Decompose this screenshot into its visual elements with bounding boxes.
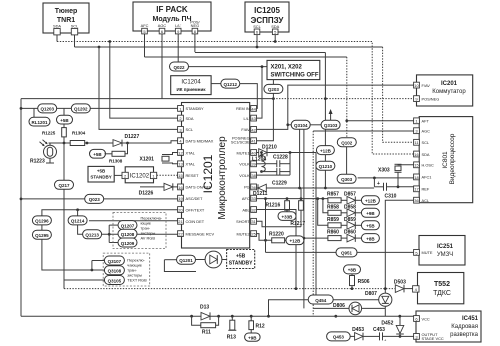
svg-text:SCL: SCL [422, 140, 430, 145]
resistor R1217 [290, 201, 305, 227]
IC1201 pin 25 MUTE2 [237, 231, 257, 237]
resistor R506 [350, 274, 370, 289]
svg-text:УМЗЧ: УМЗЧ [437, 252, 453, 258]
wire bottom supply rail [21, 315, 414, 317]
svg-text:R1304: R1304 [72, 131, 86, 136]
svg-text:Q1213: Q1213 [85, 233, 99, 238]
IC1201 pin 22 MESSAGE RCV [178, 231, 215, 237]
svg-text:H.OSC: H.OSC [422, 163, 435, 168]
svg-text:C1229: C1229 [272, 181, 287, 187]
svg-text:13: 13 [178, 162, 183, 167]
net +12В oval row [355, 199, 361, 201]
transistor Q217 oval [55, 143, 74, 289]
wire IC1202 to uC pin15 RESET [157, 174, 178, 176]
node Q1214 top junction [76, 208, 79, 211]
svg-text:C1228: C1228 [273, 155, 288, 161]
svg-text:SCL: SCL [71, 24, 79, 29]
svg-text:D1227: D1227 [125, 134, 140, 140]
svg-text:STANDBY: STANDBY [229, 261, 253, 267]
svg-text:+5В: +5В [93, 152, 102, 157]
svg-text:POS/NEG: POS/NEG [422, 96, 440, 101]
TEXT RGB switch dashed box [103, 253, 150, 286]
wire +12B drop vertical [324, 53, 326, 146]
node AFC1 junction [373, 177, 376, 180]
svg-text:19: 19 [178, 196, 183, 201]
transistor Q022 oval [170, 62, 189, 71]
vertical deflection IC451 box [416, 311, 481, 342]
wire vertical bus b [313, 307, 349, 309]
svg-text:+8В: +8В [366, 236, 375, 241]
crystal X1201 [140, 153, 178, 164]
net +5B oval left [57, 108, 73, 124]
svg-text:+12В: +12В [289, 239, 301, 244]
svg-text:TEXT RGB: TEXT RGB [127, 278, 147, 283]
svg-text:Q1296: Q1296 [35, 219, 49, 224]
wire ASC/DET row [21, 198, 178, 200]
wire Q1212 to uC pin44 REM IN [240, 84, 257, 109]
svg-text:R11: R11 [202, 330, 211, 336]
svg-text:40: 40 [251, 150, 256, 155]
tuner pin SCL [71, 29, 77, 48]
resistor R860 [303, 230, 380, 243]
diode D503 [394, 280, 413, 293]
IC201 pin 10 F/AV [414, 82, 431, 88]
diode D1210 [257, 144, 317, 156]
svg-text:Q203: Q203 [268, 87, 280, 92]
IC801 pin 1 AFT [414, 118, 430, 124]
diode D13 [200, 305, 210, 320]
wire Q3104 down link [299, 129, 301, 188]
svg-text:XTAL: XTAL [186, 162, 196, 167]
node R506 bottom junction [351, 287, 354, 290]
wire AFC from IF PACK to IC801 AFT [145, 56, 347, 58]
IC1202 pin 2 [122, 172, 128, 178]
wire F/AV line to IC201 pin10 [257, 85, 414, 129]
svg-text:20: 20 [178, 207, 183, 212]
svg-text:R857: R857 [327, 191, 339, 197]
svg-text:SWITCHING OFF: SWITCHING OFF [271, 73, 319, 79]
wire Q1295 to TEXT RGB [42, 239, 105, 270]
wire chassis left rail [20, 99, 22, 317]
svg-text:41: 41 [251, 139, 256, 144]
svg-text:12: 12 [178, 150, 183, 155]
svg-text:X303: X303 [378, 168, 390, 174]
wire AFT to IC801 pin1 [347, 120, 414, 122]
svg-text:18: 18 [414, 175, 419, 180]
resistor R12 [249, 316, 265, 333]
svg-text:Коммутатор: Коммутатор [432, 89, 466, 95]
svg-text:Q1203: Q1203 [40, 107, 54, 112]
svg-text:SDA: SDA [422, 152, 430, 157]
svg-text:SC1/SC3E: SC1/SC3E [231, 140, 250, 145]
svg-text:X1201: X1201 [140, 157, 155, 163]
photodiode R1223 [30, 140, 57, 165]
svg-text:Q1208: Q1208 [121, 232, 135, 237]
transistor Q1296 oval [32, 216, 51, 225]
wire Q951 to IC251 pin5 [357, 251, 414, 253]
wire chassis top rail [21, 98, 273, 100]
svg-text:R1225: R1225 [42, 131, 56, 136]
IC1201 pin 33 AFC [242, 195, 257, 201]
resistor R1225 [42, 124, 66, 143]
wire TEXT RGB feeder [92, 261, 105, 271]
svg-text:SHORT: SHORT [236, 219, 250, 224]
svg-text:L1204: L1204 [252, 157, 266, 163]
svg-text:R1308: R1308 [109, 159, 123, 164]
svg-text:Тюнер: Тюнер [55, 8, 78, 15]
IC1201 pin 43 L/L' [244, 115, 257, 121]
diode D857 [341, 199, 347, 201]
diode D806 in circle [333, 302, 385, 316]
svg-text:DATS ON/OFF: DATS ON/OFF [186, 185, 212, 190]
svg-text:+5В: +5В [366, 224, 375, 229]
svg-text:IC801: IC801 [442, 151, 449, 169]
IC1201 pin 41 POS/NEG SC1/SC3E [231, 136, 257, 145]
node ASC left rail junction [20, 198, 23, 201]
node D1227 cathode junction [126, 142, 129, 145]
svg-text:Q3104: Q3104 [294, 123, 308, 128]
svg-text:16: 16 [414, 152, 419, 157]
svg-text:SDA: SDA [53, 24, 61, 29]
wire DATS row [49, 141, 178, 143]
transistor Q1295 oval [32, 225, 51, 239]
svg-text:IC201: IC201 [441, 81, 458, 87]
T552 pin 4 [413, 286, 419, 292]
transistor Q951 oval [336, 248, 357, 257]
svg-text:IF PACK: IF PACK [156, 5, 188, 14]
IC1201 pin 21 COIN DET [178, 218, 205, 224]
svg-text:32: 32 [251, 207, 256, 212]
svg-text:SCL: SCL [253, 24, 261, 29]
wire chassis dashed rail [64, 288, 395, 290]
diode D807 in circle [365, 291, 392, 308]
svg-text:+5В: +5В [236, 254, 246, 260]
svg-text:SCL: SCL [186, 127, 194, 132]
wire SCL bus [75, 47, 414, 142]
svg-text:AFC1: AFC1 [422, 175, 432, 180]
wire AFC1 to IC801 pin18 [358, 177, 414, 179]
svg-text:REF: REF [422, 187, 430, 192]
svg-text:36: 36 [414, 198, 419, 203]
node ACL rail junction [384, 287, 387, 290]
IC1202 pin 1 [150, 172, 156, 178]
node R1304-D1227 junction [86, 142, 89, 145]
net +8В oval row [355, 237, 361, 239]
svg-text:15: 15 [178, 173, 183, 178]
IF PACK pin 5 AFC [142, 28, 148, 57]
svg-text:D1211: D1211 [253, 191, 268, 197]
svg-text:Q951: Q951 [341, 251, 353, 256]
svg-text:D859: D859 [344, 217, 356, 223]
transistor Q453 oval [327, 332, 351, 341]
svg-text:DATS MID/MAX: DATS MID/MAX [186, 139, 214, 144]
capacitor C1228 [262, 155, 291, 168]
svg-text:R1217: R1217 [290, 221, 305, 227]
relay RL1201 oval [29, 108, 50, 126]
wire AFC pin33 row [257, 198, 328, 200]
IC1201 pin 4 DATS MID/MAX [178, 138, 214, 144]
svg-text:IC1204: IC1204 [181, 80, 201, 86]
svg-text:D807: D807 [365, 291, 377, 297]
net +12B oval small [286, 236, 304, 245]
svg-text:+5В: +5В [60, 118, 69, 123]
svg-text:NEG: NEG [191, 23, 199, 28]
node D806 vcc junction [334, 315, 337, 318]
node SCL-IC1205 junction [256, 46, 259, 49]
video processor IC801 box [419, 117, 473, 203]
svg-text:15: 15 [414, 163, 419, 168]
node AV RGB junction [108, 233, 111, 236]
wire MESSAGE row [102, 233, 178, 235]
svg-text:+9В: +9В [366, 211, 375, 216]
IF PACK pin 6 AGC [159, 28, 165, 98]
wire Q203 to uC pin41 POS/NEG [257, 93, 274, 140]
svg-text:AGC: AGC [158, 23, 167, 28]
svg-text:X201, X202: X201, X202 [271, 65, 303, 71]
svg-text:R1223: R1223 [30, 159, 45, 165]
diode D1226 [139, 183, 178, 196]
IC1201 pin 36 PG [244, 184, 257, 190]
transistor Q1203 oval [38, 104, 57, 113]
node SDA-uC junction [108, 40, 111, 43]
IC451 pin 6 VCC [414, 316, 430, 322]
IC1201 pin 20 OFF/TEXT [178, 207, 205, 213]
svg-text:+12В: +12В [320, 148, 332, 153]
svg-text:D453: D453 [352, 327, 364, 333]
node +12B rail junction [324, 97, 327, 100]
wire Q3104 to Q3103 [310, 124, 321, 126]
wire L/L' to Q022 line [257, 67, 263, 119]
svg-text:ABL: ABL [242, 207, 250, 212]
svg-text:38: 38 [251, 173, 256, 178]
svg-text:Q1209: Q1209 [121, 241, 135, 246]
reset IC1202 box [114, 167, 153, 183]
IC1201 pin 42 F/AV [241, 127, 256, 133]
net +5B oval mid [90, 149, 106, 158]
resistor R1308 [105, 143, 128, 164]
wire AGC dashed drop [312, 131, 314, 316]
crystal X303 [378, 164, 414, 187]
wire STANDBY row [21, 107, 178, 109]
svg-text:25: 25 [251, 232, 256, 237]
wire Q1201 drop [164, 260, 196, 272]
svg-text:AFC: AFC [242, 196, 250, 201]
svg-text:D806: D806 [333, 303, 345, 309]
diode D452 vertical [381, 316, 403, 336]
svg-text:10: 10 [414, 83, 419, 88]
svg-text:ASC/DET: ASC/DET [186, 196, 203, 201]
node AFT junction [345, 119, 348, 122]
svg-text:SDA: SDA [271, 24, 279, 29]
svg-text:44: 44 [251, 106, 256, 111]
wire OFF/TEXT row [42, 210, 178, 216]
wire COIN DET row [89, 220, 178, 222]
IC801 pin 3 AGC [414, 128, 431, 134]
svg-text:Q102: Q102 [341, 141, 353, 146]
node feeder junctions [316, 197, 324, 200]
svg-text:C310: C310 [385, 194, 397, 200]
svg-text:43: 43 [251, 116, 256, 121]
svg-text:IC451: IC451 [462, 316, 479, 322]
svg-text:OFF/TEXT: OFF/TEXT [186, 207, 205, 212]
transistor Q1202 oval [71, 104, 90, 113]
power box +5B STANDBY right [227, 250, 255, 269]
wire X201 to Q203 [272, 80, 274, 85]
node R1216 top junction [286, 197, 289, 200]
resistor R1216 [266, 188, 302, 210]
IC1201 pin 16 DATS ON/OFF [178, 184, 212, 190]
node STANDBY left rail junction [20, 107, 23, 110]
node D1211 line junctions [298, 187, 327, 190]
svg-text:16: 16 [178, 185, 183, 190]
svg-text:Q022: Q022 [173, 65, 185, 70]
svg-text:развертка: развертка [450, 332, 479, 338]
IC1201 pin 38 VOLK [239, 172, 256, 178]
wire AV RGB feeder [109, 225, 118, 242]
svg-text:RL1201: RL1201 [31, 120, 48, 125]
svg-text:VOLK: VOLK [239, 162, 250, 167]
svg-text:AFT: AFT [422, 119, 430, 124]
svg-text:STANDBY: STANDBY [186, 106, 204, 111]
LED indicator D1203 [196, 251, 227, 268]
wire AGC to IC801 pin3 [313, 130, 413, 132]
IC801 pin 15 H.OSC [414, 162, 434, 168]
diode D858 [341, 212, 347, 214]
svg-text:D1210: D1210 [262, 144, 277, 150]
svg-text:Q453: Q453 [333, 335, 345, 340]
svg-text:+: + [377, 181, 380, 187]
diode D860 [341, 237, 347, 239]
svg-text:Q303: Q303 [341, 177, 353, 182]
IC1201 pin 31 SHORT [236, 218, 256, 224]
resistor R857 [327, 191, 379, 205]
IC1201 pin 1 STANDBY [178, 106, 204, 112]
net +9В oval row [355, 212, 361, 214]
IC1201 pin 12 XTAL [178, 150, 196, 156]
svg-text:+12В: +12В [365, 199, 377, 204]
svg-text:VCC: VCC [422, 316, 430, 321]
wire output stage to IC451 pin3 [400, 335, 414, 337]
svg-text:SDA: SDA [186, 116, 194, 121]
svg-text:D503: D503 [394, 280, 406, 286]
svg-text:D13: D13 [200, 305, 209, 311]
svg-text:Q3107: Q3107 [108, 259, 122, 264]
svg-text:D857: D857 [344, 191, 356, 197]
svg-text:Модуль ПЧ: Модуль ПЧ [153, 16, 192, 23]
svg-text:COIN DET: COIN DET [186, 219, 205, 224]
svg-text:Q1214: Q1214 [71, 219, 85, 224]
svg-text:22: 22 [178, 232, 183, 237]
wire SDA bus [57, 42, 414, 155]
node Q203 rail junction [272, 97, 275, 100]
svg-text:+5В: +5В [97, 169, 106, 174]
IC1201 pin 44 REM IN [236, 106, 257, 112]
transistor Q203 oval [264, 84, 283, 93]
wire SHORT pin31 [257, 221, 302, 227]
svg-text:R13: R13 [227, 335, 236, 341]
tuner TNR1 [43, 3, 89, 33]
svg-text:21: 21 [178, 219, 183, 224]
IC801 pin 11 SCL [414, 139, 430, 145]
svg-text:F/AV: F/AV [422, 83, 431, 88]
svg-text:Q1202: Q1202 [74, 107, 88, 112]
svg-text:R859: R859 [327, 217, 339, 223]
IC1201 pin 32 ABL [242, 207, 256, 213]
transistor Q1212 oval [211, 79, 240, 88]
IC1201 pin 15 RESET [178, 172, 199, 178]
net +5В oval row [355, 224, 361, 226]
node ABL rail junction [295, 287, 298, 290]
svg-text:ACL: ACL [422, 198, 430, 203]
IC251 pin 5 MUTE [414, 250, 433, 256]
transistor Q3104 oval [291, 120, 310, 129]
IC1201 pin 13 XTAL [178, 161, 196, 167]
resistor R13 [227, 316, 237, 340]
svg-text:D452: D452 [381, 321, 393, 327]
diode D1211 [253, 184, 374, 197]
power box +5B STANDBY left [88, 166, 114, 182]
svg-text:T552: T552 [434, 281, 450, 288]
wire ABL drop pin32 [257, 210, 297, 289]
IC801 pin 16 SDA [414, 151, 430, 157]
transistor Q023 oval [85, 194, 104, 203]
svg-text:ТДКС: ТДКС [433, 290, 451, 297]
node Q217 top junction [63, 142, 66, 145]
svg-text:IC1205: IC1205 [254, 6, 280, 15]
svg-text:Q023: Q023 [89, 197, 101, 202]
IC1201 pin 2 SDA [178, 115, 194, 121]
wire SDA drop to uC pin2 [110, 42, 178, 119]
svg-text:MUTE2: MUTE2 [237, 231, 250, 236]
svg-text:36: 36 [251, 185, 256, 190]
wire ACL to IC801 pin36 [385, 200, 413, 293]
wire Q1214 to Q1213 [78, 225, 83, 234]
svg-text:C453: C453 [373, 327, 385, 333]
svg-text:AV RGB: AV RGB [141, 236, 156, 241]
svg-text:ИК приемник: ИК приемник [177, 87, 207, 92]
node R1220 junction [264, 239, 267, 242]
switch X201 X202 box [267, 60, 320, 79]
IR receiver IC1204 box [171, 76, 211, 95]
wire POS/NEG rail to IC201 pin9 [273, 98, 413, 100]
svg-text:Q454: Q454 [315, 298, 327, 303]
svg-text:REM IN: REM IN [236, 106, 250, 111]
IC1201 pin 3 SCL [178, 127, 194, 133]
svg-text:STAGE VCC: STAGE VCC [422, 336, 444, 341]
net +9B oval bottom [245, 333, 261, 341]
wire POS/NEG from IF PACK to X201 box [195, 52, 326, 54]
svg-text:Q1295: Q1295 [35, 233, 49, 238]
transistor Q1201 oval [164, 255, 195, 264]
wire vertical bus c [315, 153, 317, 300]
IC1205 pin 5 SDA [272, 29, 278, 42]
node TEXT RGB junction [91, 269, 94, 272]
wire Q1210 down [324, 170, 326, 188]
resistor R858 [323, 199, 380, 218]
inductor L1204 [252, 151, 266, 173]
IF PACK pin 9 L/L' [175, 28, 181, 62]
node R1217 top junction [300, 197, 303, 200]
svg-text:D1226: D1226 [139, 191, 154, 197]
transistor Q3103 oval [321, 120, 340, 129]
node Q3104 link junction [286, 123, 289, 126]
svg-text:R858: R858 [327, 204, 339, 210]
resistor R1220 [269, 232, 286, 243]
svg-text:Кадровая: Кадровая [451, 324, 478, 330]
IC801 pin 17 REF [414, 186, 430, 192]
svg-text:D858: D858 [344, 204, 356, 210]
svg-text:D860: D860 [344, 230, 356, 236]
